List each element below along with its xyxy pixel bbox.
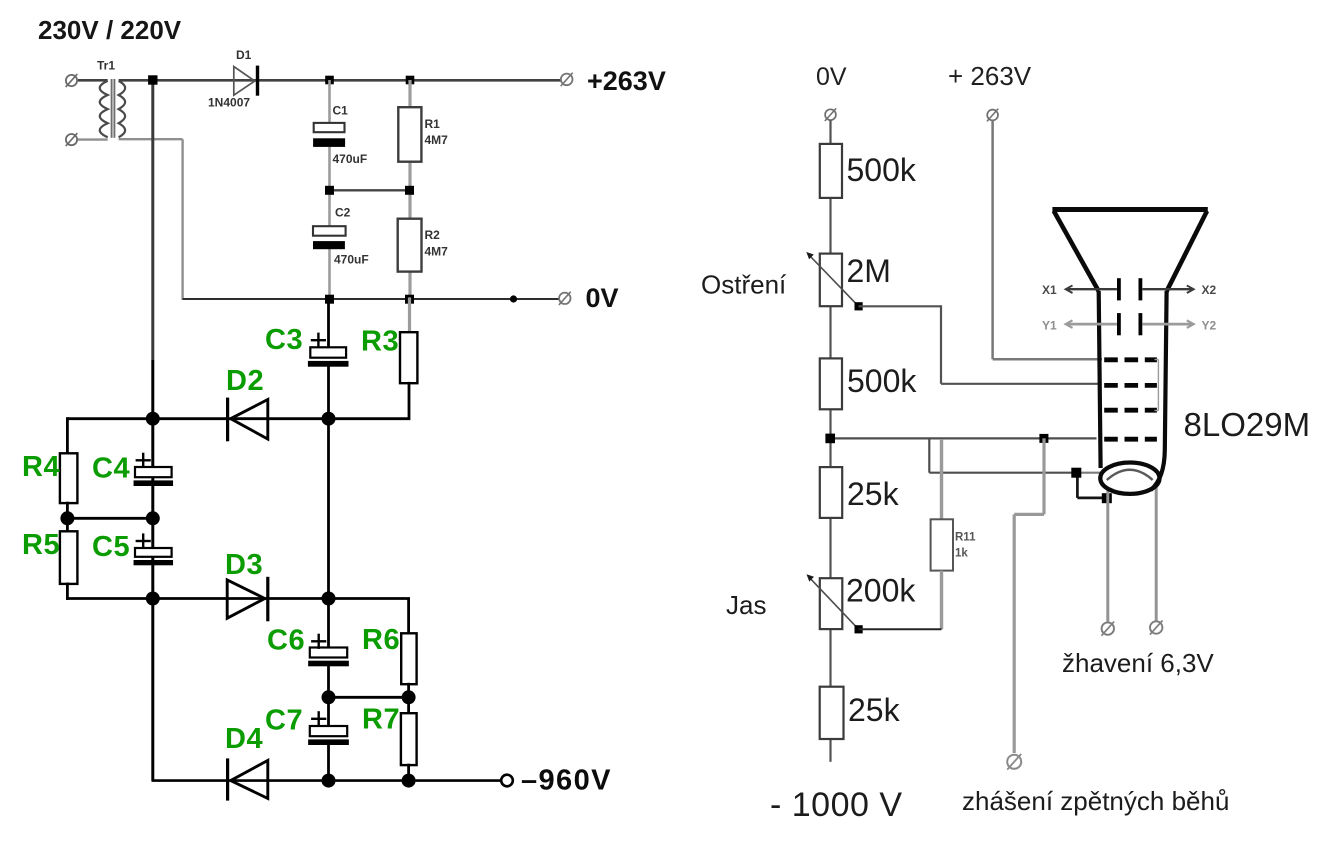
svg-text:- 1000 V: - 1000 V (770, 786, 903, 824)
svg-text:zhášení zpětných běhů: zhášení zpětných běhů (962, 786, 1229, 816)
svg-text:0V: 0V (816, 63, 847, 91)
svg-text:2M: 2M (847, 253, 891, 289)
svg-text:470uF: 470uF (333, 152, 368, 166)
svg-text:C6: C6 (267, 625, 305, 657)
svg-text:R7: R7 (362, 704, 400, 736)
svg-text:D3: D3 (225, 549, 263, 581)
svg-text:C1: C1 (333, 104, 349, 118)
svg-text:1N4007: 1N4007 (208, 96, 250, 110)
svg-text:4M7: 4M7 (425, 245, 449, 259)
svg-text:D4: D4 (225, 723, 263, 755)
svg-text:R5: R5 (22, 529, 60, 561)
svg-text:C4: C4 (92, 453, 130, 485)
svg-text:žhavení 6,3V: žhavení 6,3V (1062, 648, 1214, 678)
svg-text:C3: C3 (265, 324, 303, 356)
svg-text:R2: R2 (425, 228, 441, 242)
svg-text:4M7: 4M7 (425, 133, 449, 147)
svg-text:+ 263V: + 263V (948, 61, 1032, 91)
svg-text:C5: C5 (92, 531, 130, 563)
svg-text:Tr1: Tr1 (97, 59, 115, 73)
svg-text:25k: 25k (847, 476, 900, 512)
svg-text:8LO29M: 8LO29M (1184, 406, 1311, 443)
svg-text:Y2: Y2 (1202, 318, 1217, 332)
svg-text:0V: 0V (586, 283, 619, 313)
svg-text:C7: C7 (265, 705, 303, 737)
svg-text:Ostření: Ostření (701, 270, 787, 300)
svg-text:230V / 220V: 230V / 220V (38, 15, 182, 45)
svg-text:Y1: Y1 (1042, 318, 1057, 332)
svg-text:D2: D2 (226, 365, 264, 397)
svg-text:500k: 500k (847, 363, 917, 399)
svg-text:R4: R4 (22, 451, 60, 483)
svg-text:200k: 200k (846, 573, 916, 609)
svg-text:470uF: 470uF (334, 253, 369, 267)
svg-text:1k: 1k (955, 548, 968, 560)
svg-text:R1: R1 (425, 117, 441, 131)
svg-text:500k: 500k (847, 152, 917, 188)
svg-text:D1: D1 (236, 48, 252, 62)
svg-text:–960V: –960V (521, 765, 612, 797)
svg-text:X2: X2 (1202, 283, 1217, 297)
svg-text:25k: 25k (848, 692, 901, 728)
svg-text:R6: R6 (362, 624, 400, 656)
svg-text:X1: X1 (1042, 283, 1057, 297)
svg-text:C2: C2 (335, 206, 351, 220)
svg-text:Jas: Jas (726, 590, 766, 620)
svg-text:R11: R11 (955, 532, 976, 544)
svg-text:+263V: +263V (587, 66, 666, 96)
svg-text:R3: R3 (361, 326, 399, 358)
